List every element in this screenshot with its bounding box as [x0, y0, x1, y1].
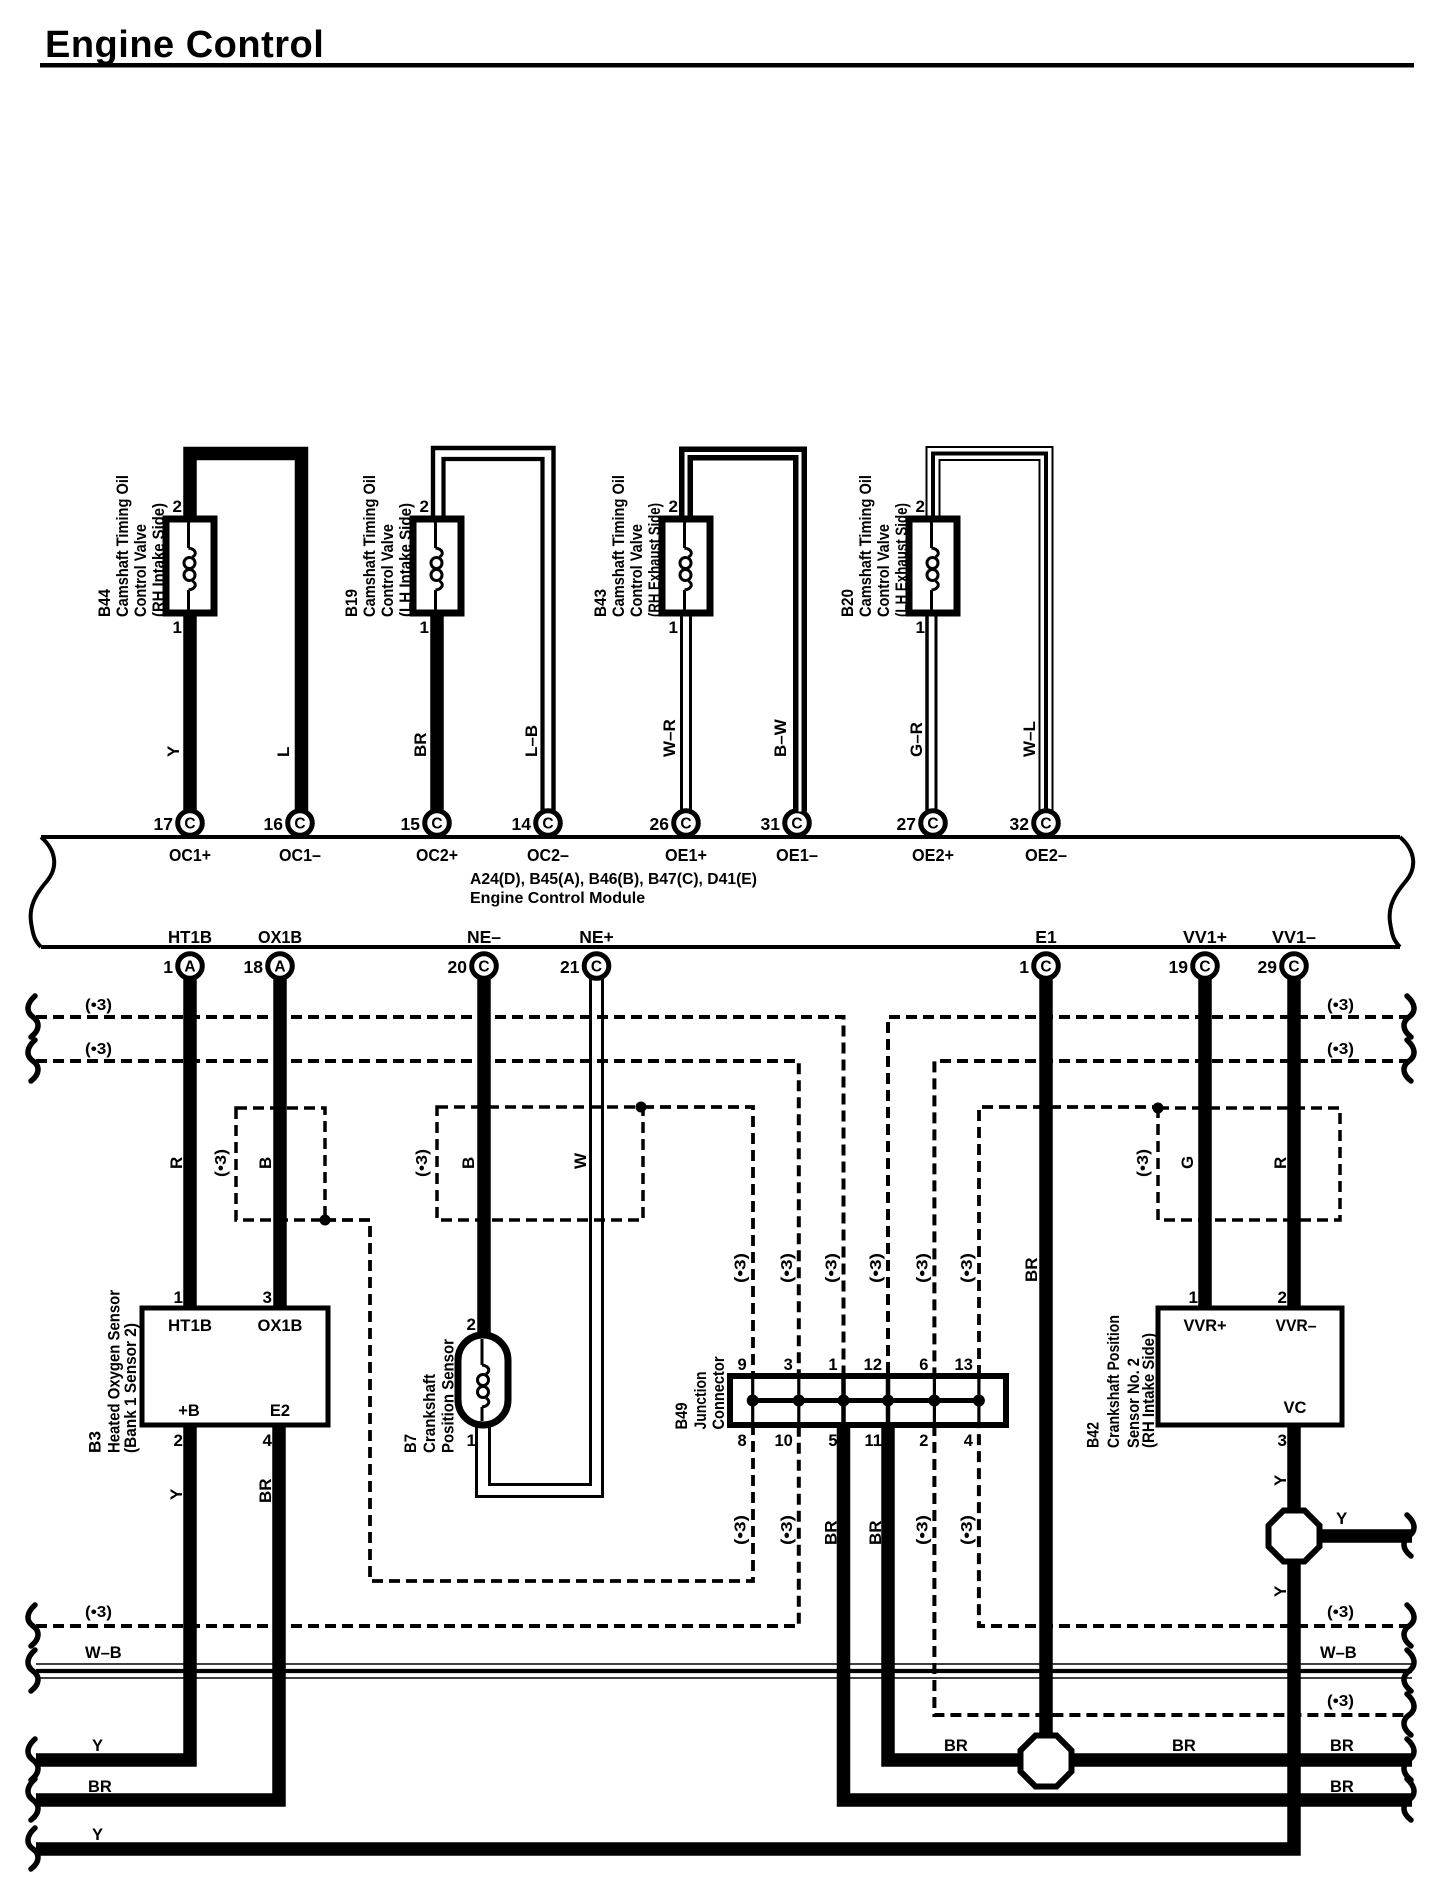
svg-text:BR: BR — [944, 1737, 968, 1755]
svg-text:C: C — [591, 959, 602, 976]
svg-text:E1: E1 — [1035, 927, 1057, 947]
svg-text:B–W: B–W — [771, 718, 790, 757]
svg-text:Y: Y — [92, 1826, 103, 1844]
svg-text:C: C — [1040, 816, 1051, 833]
svg-text:2: 2 — [173, 497, 182, 516]
svg-text:C: C — [431, 816, 442, 833]
svg-text:Y: Y — [92, 1737, 103, 1755]
svg-text:(•3): (•3) — [824, 1253, 841, 1283]
svg-text:(•3): (•3) — [868, 1253, 885, 1283]
svg-text:(•3): (•3) — [1135, 1149, 1152, 1177]
svg-text:Y: Y — [1271, 1474, 1290, 1486]
svg-text:Control Valve: Control Valve — [627, 524, 646, 617]
svg-text:Crankshaft Position: Crankshaft Position — [1104, 1315, 1123, 1448]
svg-text:(•3): (•3) — [1327, 1604, 1354, 1621]
svg-text:B: B — [256, 1157, 275, 1169]
svg-text:NE+: NE+ — [579, 927, 614, 947]
svg-text:21: 21 — [560, 957, 580, 977]
svg-text:2: 2 — [174, 1431, 183, 1450]
svg-text:C: C — [184, 816, 195, 833]
svg-text:VC: VC — [1284, 1399, 1307, 1417]
svg-text:W–B: W–B — [1320, 1644, 1357, 1662]
svg-text:OE1+: OE1+ — [665, 845, 707, 865]
svg-text:OC1–: OC1– — [279, 845, 321, 865]
svg-text:(•3): (•3) — [959, 1515, 976, 1545]
svg-text:Control Valve: Control Valve — [874, 524, 893, 617]
svg-text:VVR–: VVR– — [1276, 1317, 1317, 1335]
svg-text:BR: BR — [1330, 1778, 1354, 1796]
svg-text:19: 19 — [1169, 957, 1189, 977]
svg-text:(•3): (•3) — [213, 1149, 230, 1177]
svg-text:Position Sensor: Position Sensor — [439, 1339, 458, 1453]
svg-text:32: 32 — [1010, 814, 1030, 834]
svg-text:8: 8 — [738, 1432, 747, 1450]
svg-text:B49: B49 — [672, 1403, 691, 1430]
svg-text:OC1+: OC1+ — [169, 845, 211, 865]
svg-text:OE1–: OE1– — [776, 845, 818, 865]
svg-text:R: R — [1271, 1157, 1290, 1169]
svg-text:3: 3 — [263, 1288, 272, 1307]
svg-text:W: W — [571, 1152, 590, 1169]
svg-text:5: 5 — [828, 1432, 837, 1450]
svg-text:BR: BR — [1172, 1737, 1196, 1755]
svg-text:(•3): (•3) — [1327, 997, 1354, 1014]
svg-text:(•3): (•3) — [1327, 1041, 1354, 1058]
svg-text:G: G — [1178, 1156, 1197, 1169]
svg-text:(•3): (•3) — [779, 1515, 796, 1545]
svg-text:1: 1 — [420, 618, 429, 637]
svg-text:Camshaft Timing Oil: Camshaft Timing Oil — [113, 475, 132, 617]
svg-text:15: 15 — [401, 814, 421, 834]
svg-text:(•3): (•3) — [959, 1253, 976, 1283]
svg-text:(•3): (•3) — [85, 1041, 112, 1058]
svg-text:18: 18 — [244, 957, 264, 977]
svg-text:(•3): (•3) — [733, 1253, 750, 1283]
svg-text:C: C — [1040, 959, 1051, 976]
svg-text:C: C — [791, 816, 802, 833]
svg-text:31: 31 — [761, 814, 781, 834]
svg-text:B43: B43 — [591, 589, 610, 617]
svg-text:9: 9 — [738, 1356, 747, 1374]
svg-text:12: 12 — [864, 1356, 882, 1374]
svg-text:3: 3 — [1278, 1431, 1287, 1450]
svg-text:Engine Control Module: Engine Control Module — [470, 890, 645, 907]
svg-text:W–L: W–L — [1020, 721, 1039, 757]
svg-text:HT1B: HT1B — [168, 1317, 212, 1335]
svg-text:16: 16 — [264, 814, 284, 834]
svg-text:4: 4 — [964, 1432, 974, 1450]
svg-text:1: 1 — [916, 618, 925, 637]
svg-text:Control Valve: Control Valve — [131, 524, 150, 617]
svg-text:10: 10 — [774, 1432, 792, 1450]
svg-text:B: B — [459, 1157, 478, 1169]
svg-text:OX1B: OX1B — [258, 927, 302, 947]
svg-text:A: A — [274, 959, 285, 976]
svg-text:L: L — [274, 747, 293, 757]
svg-text:Junction: Junction — [691, 1372, 710, 1430]
svg-text:Camshaft Timing Oil: Camshaft Timing Oil — [360, 475, 379, 617]
svg-text:2: 2 — [669, 497, 678, 516]
svg-text:29: 29 — [1258, 957, 1278, 977]
svg-text:(•3): (•3) — [85, 997, 112, 1014]
svg-text:(•3): (•3) — [914, 1253, 931, 1283]
svg-text:Connector: Connector — [709, 1356, 728, 1429]
svg-text:OX1B: OX1B — [258, 1317, 303, 1335]
svg-text:(•3): (•3) — [85, 1604, 112, 1621]
svg-text:B3: B3 — [86, 1431, 105, 1453]
svg-text:Crankshaft: Crankshaft — [420, 1374, 439, 1453]
svg-text:(•3): (•3) — [733, 1515, 750, 1545]
svg-text:2: 2 — [1278, 1288, 1287, 1307]
svg-text:Y: Y — [1271, 1585, 1290, 1597]
svg-text:R: R — [167, 1157, 186, 1169]
svg-text:B7: B7 — [401, 1434, 420, 1453]
svg-text:(LH Exhaust Side): (LH Exhaust Side) — [892, 503, 911, 617]
svg-text:Camshaft Timing Oil: Camshaft Timing Oil — [856, 475, 875, 617]
svg-text:13: 13 — [955, 1356, 973, 1374]
svg-text:W–B: W–B — [85, 1644, 122, 1662]
svg-text:Y: Y — [167, 1488, 186, 1500]
svg-text:20: 20 — [448, 957, 468, 977]
svg-text:27: 27 — [897, 814, 916, 834]
svg-text:2: 2 — [916, 497, 925, 516]
svg-text:1: 1 — [174, 1288, 183, 1307]
svg-text:C: C — [680, 816, 691, 833]
svg-text:1: 1 — [1019, 957, 1029, 977]
svg-text:OC2+: OC2+ — [416, 845, 458, 865]
svg-text:C: C — [294, 816, 305, 833]
svg-text:Control Valve: Control Valve — [378, 524, 397, 617]
svg-text:W–R: W–R — [660, 719, 679, 757]
svg-text:C: C — [927, 816, 938, 833]
svg-text:(•3): (•3) — [914, 1515, 931, 1545]
svg-text:A: A — [184, 959, 195, 976]
svg-text:(RH Exhaust Side): (RH Exhaust Side) — [645, 503, 664, 617]
svg-text:1: 1 — [669, 618, 678, 637]
svg-text:6: 6 — [919, 1356, 928, 1374]
svg-text:2: 2 — [420, 497, 429, 516]
svg-text:C: C — [1199, 959, 1210, 976]
svg-text:(RH Intake Side): (RH Intake Side) — [149, 503, 168, 617]
svg-text:OC2–: OC2– — [527, 845, 569, 865]
svg-text:BR: BR — [1330, 1737, 1354, 1755]
svg-text:BR: BR — [256, 1478, 275, 1503]
svg-text:(•3): (•3) — [1327, 1693, 1354, 1710]
svg-text:OE2–: OE2– — [1025, 845, 1067, 865]
svg-text:Camshaft Timing Oil: Camshaft Timing Oil — [609, 475, 628, 617]
svg-text:BR: BR — [88, 1778, 112, 1796]
svg-text:14: 14 — [512, 814, 532, 834]
svg-text:3: 3 — [784, 1356, 793, 1374]
svg-text:1: 1 — [467, 1431, 476, 1450]
svg-text:(Bank 1 Sensor 2): (Bank 1 Sensor 2) — [121, 1323, 140, 1453]
svg-text:C: C — [478, 959, 489, 976]
svg-text:1: 1 — [828, 1356, 837, 1374]
svg-text:B20: B20 — [838, 589, 857, 617]
svg-text:C: C — [1288, 959, 1299, 976]
svg-text:(•3): (•3) — [414, 1149, 431, 1177]
svg-text:17: 17 — [154, 814, 173, 834]
svg-text:1: 1 — [163, 957, 173, 977]
svg-text:VVR+: VVR+ — [1184, 1317, 1227, 1335]
svg-text:G–R: G–R — [907, 722, 926, 757]
svg-text:HT1B: HT1B — [168, 927, 212, 947]
svg-text:VV1+: VV1+ — [1183, 927, 1227, 947]
svg-text:(RH Intake Side): (RH Intake Side) — [1139, 1333, 1158, 1448]
svg-text:B44: B44 — [95, 589, 114, 617]
svg-text:OE2+: OE2+ — [912, 845, 954, 865]
svg-text:1: 1 — [1189, 1288, 1198, 1307]
svg-text:2: 2 — [919, 1432, 928, 1450]
svg-text:26: 26 — [650, 814, 670, 834]
svg-text:NE–: NE– — [467, 927, 501, 947]
svg-text:4: 4 — [263, 1431, 273, 1450]
svg-text:VV1–: VV1– — [1272, 927, 1316, 947]
svg-text:Engine Control: Engine Control — [45, 24, 324, 66]
svg-text:(LH Intake Side): (LH Intake Side) — [396, 503, 415, 617]
svg-text:1: 1 — [173, 618, 182, 637]
svg-text:BR: BR — [1022, 1257, 1041, 1282]
svg-text:B19: B19 — [342, 589, 361, 617]
svg-text:A24(D), B45(A), B46(B), B47(C): A24(D), B45(A), B46(B), B47(C), D41(E) — [470, 871, 757, 888]
svg-text:C: C — [542, 816, 553, 833]
svg-text:L–B: L–B — [522, 725, 541, 757]
svg-text:(•3): (•3) — [779, 1253, 796, 1283]
svg-text:Y: Y — [164, 745, 183, 757]
svg-text:+B: +B — [178, 1402, 200, 1420]
svg-text:Y: Y — [1336, 1509, 1348, 1528]
svg-text:2: 2 — [467, 1315, 476, 1334]
svg-text:11: 11 — [865, 1432, 882, 1450]
svg-text:E2: E2 — [270, 1402, 290, 1420]
svg-text:B42: B42 — [1084, 1422, 1103, 1448]
svg-text:BR: BR — [411, 732, 430, 757]
